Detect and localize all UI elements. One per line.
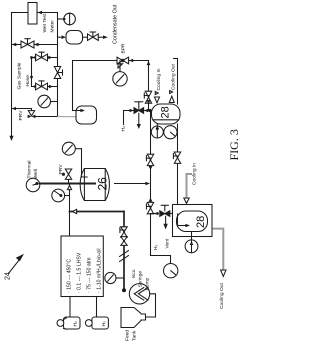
svg-text:26: 26	[96, 177, 110, 191]
gauge under 28b	[191, 232, 193, 241]
label Cooling In (top)	[156, 68, 162, 90]
svg-text:H₂: H₂	[101, 321, 107, 327]
wire vent line left	[11, 13, 13, 137]
jacket 28b	[173, 205, 213, 237]
valve BPR	[117, 57, 129, 64]
valve on product line lower	[147, 202, 153, 213]
wire pump riser	[123, 212, 125, 291]
svg-text:Cooling In: Cooling In	[156, 68, 162, 90]
gauge vent line	[164, 264, 178, 278]
wire riser from separator	[148, 61, 150, 111]
cooling in arrow 28a	[155, 92, 158, 95]
svg-text:· 0.1 --- 1.5 LHSV: · 0.1 --- 1.5 LHSV	[76, 252, 82, 293]
label conditions line4	[97, 248, 103, 293]
H2 cylinder 2	[92, 317, 109, 329]
svg-text:PRV: PRV	[58, 164, 64, 175]
wet test meter box	[28, 3, 37, 25]
valve on product line upper	[147, 154, 153, 165]
arrow into meter	[38, 11, 43, 15]
valve row3	[36, 83, 48, 90]
wire drain elbow to gauge	[151, 214, 171, 264]
label 24	[5, 272, 12, 280]
reference numeral 24 arrow	[9, 259, 21, 274]
wire wet-test-meter inlet	[37, 12, 58, 14]
sight glass circle C1	[151, 126, 163, 138]
wire gauge tap G2	[51, 101, 58, 103]
wire sample row 2	[32, 57, 58, 59]
svg-text:28: 28	[195, 216, 207, 228]
reactor 26 vessel	[80, 169, 109, 201]
svg-text:Hose: Hose	[25, 75, 31, 87]
valve on riser	[145, 91, 151, 103]
svg-text:FIG. 3: FIG. 3	[227, 129, 240, 160]
wire BPR gauge tap	[119, 61, 121, 72]
svg-text:Thermal: Thermal	[27, 161, 33, 179]
main reactor line	[40, 183, 95, 185]
knockout pot V1	[76, 106, 97, 124]
svg-text:· 75 --- 150 atm: · 75 --- 150 atm	[86, 258, 92, 293]
valve pump discharge 2	[121, 237, 127, 246]
label H2	[121, 126, 127, 132]
wire wet-test-meter outlet	[12, 12, 29, 14]
label Cooling In lower	[192, 163, 198, 185]
svg-text:Cooling Out: Cooling Out	[171, 64, 177, 90]
thermocouple TI circle	[26, 178, 40, 192]
svg-text:PRV: PRV	[18, 110, 24, 121]
cooling in arrow 28b	[184, 198, 189, 203]
label 26	[96, 177, 110, 191]
wire drop to knockout pot	[72, 61, 74, 111]
label Cooling Out lower	[219, 283, 225, 309]
valve H2 cross	[134, 108, 144, 114]
condenser capsule	[66, 31, 83, 45]
svg-text:Wet Test: Wet Test	[42, 13, 48, 32]
svg-text:Meter: Meter	[50, 20, 56, 33]
label Thermal Well	[27, 161, 40, 179]
svg-text:H₂: H₂	[73, 321, 79, 327]
svg-text:Tank: Tank	[132, 330, 138, 341]
label conditions line2	[76, 252, 82, 293]
label PRV	[18, 110, 24, 121]
valve condensate out	[88, 34, 99, 41]
valve row1	[21, 41, 34, 48]
label Condensate Out	[113, 4, 119, 44]
gauge G1	[64, 13, 76, 25]
svg-text:BPR: BPR	[121, 43, 127, 54]
vent arrow down	[9, 136, 13, 141]
label Vent	[164, 238, 170, 248]
svg-text:28: 28	[159, 106, 171, 118]
relief valve PRV	[28, 111, 34, 116]
svg-text:· 150 --- 450°C: · 150 --- 450°C	[66, 259, 72, 293]
wire 28b inlet	[177, 214, 179, 226]
label Cooling Out (top)	[171, 64, 177, 90]
node line A vertical header	[57, 13, 59, 117]
cooling in pipe 28b	[187, 174, 192, 199]
gauge G6 pump	[116, 277, 124, 279]
svg-text:Cooling Out: Cooling Out	[219, 283, 225, 309]
wire capsule to valve	[83, 36, 88, 38]
separator 28a	[152, 104, 181, 124]
wire cylinder 1 riser	[69, 297, 71, 318]
valve vent cross	[151, 213, 159, 215]
gauge G3	[113, 72, 127, 86]
pump Isco syringe	[129, 284, 149, 304]
wire 28a liquid drop	[177, 124, 179, 226]
svg-text:Pump: Pump	[144, 277, 150, 290]
wire PRV outlet	[35, 116, 58, 118]
wire gas product line	[150, 111, 152, 204]
wire PRV header	[12, 108, 32, 110]
svg-text:Well: Well	[33, 169, 39, 178]
gauge G4 reactor	[75, 148, 81, 150]
label Isco Syringe Pump	[131, 269, 150, 290]
svg-text:Vent: Vent	[164, 238, 170, 248]
svg-text:Feed: Feed	[125, 330, 131, 341]
svg-text:24: 24	[5, 272, 12, 280]
label conditions line1	[66, 259, 72, 293]
svg-text:H₂: H₂	[153, 244, 159, 250]
label BPR	[121, 43, 127, 54]
label 28a	[159, 106, 171, 118]
wire gauge tap G1	[58, 18, 64, 20]
feed tank	[121, 308, 146, 328]
wire gas sample hose drop	[31, 58, 33, 87]
wire sample row 1	[12, 44, 58, 46]
reactor top feed dip tube	[82, 149, 88, 177]
cooling out arrow 28a	[170, 91, 173, 94]
label FIG. 3	[227, 129, 241, 160]
wire condenser inlet	[58, 36, 62, 38]
wire H2 makeup	[124, 110, 149, 112]
label PRV2	[58, 164, 64, 175]
wire cylinder 2 riser	[96, 297, 98, 318]
svg-text:· 1-10 m³H₂/Lbio-oil: · 1-10 m³H₂/Lbio-oil	[97, 248, 103, 293]
label 28b	[195, 216, 207, 228]
wire feed branch horizontal	[70, 211, 125, 213]
wire BPR header	[73, 60, 149, 62]
svg-text:Syringe: Syringe	[138, 271, 144, 288]
label Wet Test Meter	[42, 13, 56, 32]
gauge C2	[164, 126, 177, 139]
relief valve PRV2	[68, 179, 70, 183]
svg-text:Gas Sample: Gas Sample	[16, 62, 22, 89]
cooling out pipe 28b	[212, 229, 223, 270]
svg-text:Condensate Out: Condensate Out	[113, 4, 119, 44]
valve pump discharge 1	[121, 227, 127, 237]
check marks on pump line	[120, 251, 129, 257]
valve row2	[36, 54, 48, 61]
label H2 drain	[153, 244, 159, 250]
node junction H2/gas	[148, 109, 151, 112]
label Feed Tank	[125, 330, 138, 341]
separator 28b	[177, 211, 208, 232]
valve vertical on header	[54, 67, 60, 79]
wire cooling stub right	[177, 59, 179, 105]
H2 cylinder 1	[64, 317, 81, 329]
wire feed tank to pump	[146, 294, 156, 317]
node pump inlet	[122, 288, 126, 292]
label conditions line3	[86, 258, 92, 293]
wire into separator 28a	[150, 110, 154, 112]
thermowell inside reactor	[77, 183, 96, 185]
wire vent drop	[165, 216, 167, 223]
svg-text:Isco: Isco	[131, 269, 137, 278]
wire sample row 3	[32, 86, 58, 88]
label Gas Sample Hose	[16, 62, 31, 89]
svg-text:Cooling In: Cooling In	[192, 163, 198, 185]
valve on 28a drop	[174, 152, 180, 163]
gauge G2	[38, 95, 51, 108]
gauge G5 feed	[65, 195, 70, 197]
wire feed riser	[69, 184, 71, 237]
conditions box	[61, 236, 103, 297]
svg-text:H₂: H₂	[121, 126, 127, 132]
cooling out arrow	[221, 270, 226, 276]
wire condensate out	[98, 36, 103, 38]
